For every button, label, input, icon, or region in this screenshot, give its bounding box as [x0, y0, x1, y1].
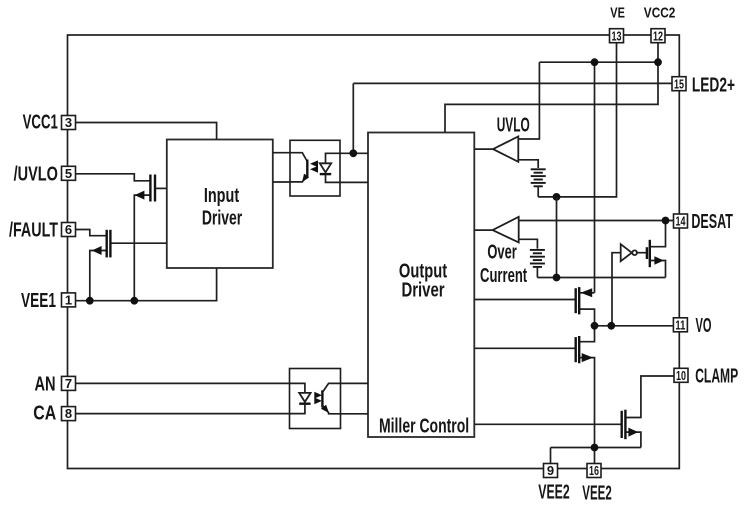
pin 11 VO: [673, 317, 687, 332]
svg-text:VCC1: VCC1: [23, 111, 58, 133]
wire Q5 source to VEE2 node: [626, 432, 641, 447]
wire Input Driver to opto1 phototransistor collector: [273, 152, 290, 154]
wire /FAULT pin6 to M2 drain: [76, 230, 106, 236]
wire Q4 source down to VEE2 node: [579, 358, 594, 448]
wire opto1 LED anode to Output Driver / node LED2+: [340, 152, 368, 154]
optocoupler U4 (input signal opto): [290, 369, 341, 429]
wire node LED2+ riser to pin 15 line: [352, 83, 354, 153]
svg-text:3: 3: [65, 115, 72, 130]
junction node on VEE1 rail (M1 source): [130, 297, 138, 305]
pin 10 CLAMP: [674, 368, 688, 383]
transistor Q6 (DESAT blanking MOSFET): [647, 240, 664, 267]
wire VE branch vertical: [556, 197, 558, 278]
pin 6 /FAULT: [62, 222, 76, 237]
pin 14 DESAT: [674, 214, 688, 229]
svg-text:CA: CA: [33, 403, 56, 425]
transistor M2 (/FAULT pull-down MOSFET): [92, 230, 111, 258]
svg-text:8: 8: [65, 406, 72, 421]
svg-text:14: 14: [676, 214, 687, 229]
svg-text:Miller Control: Miller Control: [379, 416, 469, 438]
wire M2 gate to Input Driver: [111, 242, 167, 244]
wire opto2 phototransistor emitter to Output Driver: [341, 413, 369, 415]
pin 7 AN: [62, 376, 76, 391]
svg-text:Input: Input: [204, 185, 240, 207]
wire VCC2 rail down to output stage M3 drain: [594, 62, 596, 293]
optocoupler U3 (fault feedback opto): [290, 140, 340, 196]
junction node VCC2 rail at pin12 column: [654, 58, 662, 66]
wire VCC1 pin3 to Input Driver top: [76, 123, 217, 140]
wire M1 gate to Input Driver: [156, 187, 167, 189]
transistor Q4 (output pull-down MOSFET): [576, 336, 594, 363]
svg-text:1: 1: [65, 293, 72, 308]
inverter U7: [621, 244, 637, 261]
svg-text:Driver: Driver: [202, 208, 242, 230]
wire VEE1 rail pin1 to Input Driver bottom: [76, 268, 217, 301]
block: Input Driver U1: [167, 140, 273, 269]
svg-text:7: 7: [65, 376, 72, 391]
pin 12 VCC2: [651, 28, 665, 43]
wire Output Driver to Q4 gate: [474, 347, 575, 349]
svg-text:/UVLO: /UVLO: [14, 163, 58, 185]
junction node opto1 anode / LED2+ riser: [349, 149, 357, 157]
wire /UVLO pin5 to M1 drain: [76, 174, 150, 181]
transistor Q5 (Miller clamp MOSFET): [622, 410, 638, 440]
pin 8 CA: [62, 406, 76, 421]
wire M1 source to VEE1 rail: [134, 195, 149, 301]
svg-text:VEE2: VEE2: [582, 483, 612, 505]
pin 16 VEE2: [587, 463, 601, 478]
svg-text:DESAT: DESAT: [691, 211, 733, 233]
wire VCC2 horizontal rail to UVLO input: [539, 61, 658, 63]
junction node on VEE1 rail (M2 source): [86, 297, 94, 305]
wire inverter U7 output to Q6 gate: [637, 252, 647, 254]
op-amp U6 Over Current comparator: [493, 217, 519, 243]
battery B1 (UVLO reference): [531, 169, 546, 197]
pin 9 VEE2: [544, 463, 558, 478]
svg-text:Over: Over: [487, 241, 517, 263]
wire pin16 riser: [594, 448, 596, 464]
svg-text:VCC2: VCC2: [644, 5, 676, 22]
pin 3 VCC1: [62, 115, 76, 130]
wire VEE2 node rail pin9 to Q5 source: [551, 447, 641, 449]
svg-text:12: 12: [653, 28, 663, 43]
junction node VE rail / OC reference branch: [553, 193, 561, 201]
wire opto2 phototransistor collector to Output Driver: [341, 382, 369, 384]
wire Q3 drain from VCC2 branch: [579, 292, 594, 294]
pin 13 VE: [610, 28, 624, 43]
junction node VO / inverter branch: [607, 322, 615, 330]
wire UVLO top input from VCC2 rail: [518, 62, 539, 139]
transistor Q3 (output pull-up MOSFET): [576, 287, 593, 314]
wire inverter U7 input from node VO: [612, 253, 621, 326]
wire Q5 drain to pin 10 CLAMP: [626, 376, 675, 418]
svg-text:LED2+: LED2+: [692, 74, 735, 96]
wire Q4 drain to node VO: [579, 326, 594, 342]
svg-text:16: 16: [589, 463, 599, 478]
pin 15 LED2+: [672, 76, 686, 91]
transistor M1 (/UVLO pull-down MOSFET): [135, 175, 155, 202]
svg-text:UVLO: UVLO: [497, 115, 530, 137]
wire Output Driver to Q3 gate: [474, 299, 575, 301]
wire Miller Control to Q5 gate: [474, 423, 621, 425]
svg-text:CLAMP: CLAMP: [695, 365, 738, 387]
svg-text:15: 15: [674, 76, 684, 91]
wire node VO to pin 11: [595, 325, 674, 327]
battery B2 (Over Current reference): [530, 250, 545, 278]
wire Q3 source to node VO: [579, 309, 594, 326]
svg-text:VEE1: VEE1: [21, 290, 56, 312]
junction node VCC2 rail / M3 branch: [591, 58, 599, 66]
svg-text:11: 11: [675, 317, 685, 332]
wire UVLO bottom input to reference battery B1: [518, 160, 538, 168]
svg-text:/FAULT: /FAULT: [9, 220, 58, 242]
svg-text:AN: AN: [35, 373, 56, 395]
junction node VEE2: [591, 444, 599, 452]
svg-text:Driver: Driver: [401, 279, 444, 301]
wire opto1 LED cathode to Output Driver: [340, 181, 368, 183]
svg-text:VEE2: VEE2: [538, 482, 570, 504]
wire DESAT sense line pin14 to Over Current input: [519, 220, 674, 222]
wire VCC2 pin12 down and across to Output Driver top: [445, 43, 658, 133]
wire Q6 source to VE return: [650, 261, 666, 278]
junction node DESAT at pin14: [662, 217, 670, 225]
pin 5 /UVLO: [62, 166, 76, 181]
svg-text:10: 10: [676, 368, 686, 383]
junction node VO at Q3/Q4: [591, 322, 599, 330]
svg-text:VE: VE: [610, 5, 625, 22]
wire LED2+ line to pin 15: [353, 82, 672, 84]
wire pin9 riser: [550, 448, 552, 464]
op-amp U5 UVLO comparator: [493, 136, 518, 161]
svg-text:6: 6: [65, 222, 72, 237]
wire AN pin7 to opto2 LED anode: [76, 382, 290, 384]
svg-text:VO: VO: [696, 315, 712, 337]
svg-text:13: 13: [612, 28, 622, 43]
svg-text:Current: Current: [480, 265, 527, 287]
junction node VE branch / B2 return: [553, 274, 561, 282]
block: Output Driver U2 with Miller Control: [368, 133, 474, 438]
wire Over Current output to Output Driver: [474, 229, 492, 231]
svg-text:5: 5: [65, 166, 72, 181]
wire CA pin8 to opto2 LED cathode: [76, 413, 290, 415]
svg-text:9: 9: [547, 463, 554, 478]
border frame wire (IC package outline): [68, 35, 680, 469]
wire Over Current bottom input to battery B2: [519, 239, 538, 248]
wire Q6 drain to node DESAT: [650, 221, 666, 247]
wire Input Driver to opto1 phototransistor emitter: [273, 181, 290, 183]
wire battery B2 / VE branch to Q6 source return: [537, 277, 665, 279]
wire M2 source to VEE1 rail: [90, 251, 106, 301]
pin 1 VEE1: [62, 293, 76, 308]
wire UVLO output to Output Driver: [474, 148, 493, 150]
wire VE pin13 down to reference rail: [538, 43, 616, 197]
